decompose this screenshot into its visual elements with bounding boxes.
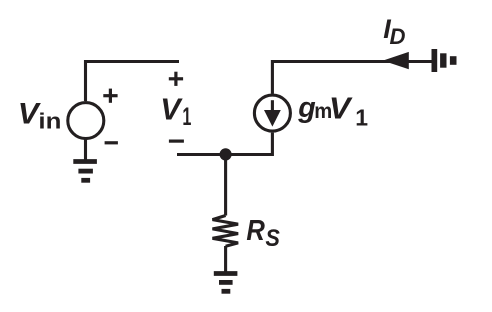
label V1 (160, 92, 191, 131)
ground (below RS) (214, 274, 238, 292)
svg-text:g: g (297, 92, 315, 124)
polarity + (Vin) (103, 89, 117, 103)
label RS (246, 215, 280, 252)
wire: current source top to drain terminal (272, 62, 431, 94)
dependent current source gmV1 (254, 95, 290, 131)
polarity - (V1) (169, 140, 184, 143)
svg-text:D: D (390, 24, 406, 49)
ground (below Vin) (73, 162, 97, 181)
polarity - (Vin) (105, 141, 118, 144)
wire: resistor to ground (224, 246, 227, 274)
label ID (383, 14, 405, 49)
wire: gate lead from Vin top to V1 + terminal (86, 62, 180, 102)
wire: Vin bottom to ground (84, 140, 87, 162)
wire: source node horizontal (V1 - terminal to current source) (177, 133, 272, 155)
node: source junction dot (220, 148, 232, 160)
resistor RS (213, 216, 239, 247)
svg-text:V: V (160, 92, 183, 126)
svg-text:S: S (265, 225, 280, 252)
voltage source Vin (68, 103, 104, 139)
current direction arrow ID (383, 52, 409, 69)
label Vin (18, 97, 62, 133)
svg-text:in: in (38, 109, 61, 134)
drain terminal (broken connection bars) (432, 49, 457, 72)
svg-text:1: 1 (182, 103, 191, 131)
svg-text:1: 1 (355, 104, 368, 130)
wire: node down to resistor (224, 155, 227, 216)
svg-text:V: V (329, 90, 353, 125)
svg-text:R: R (246, 215, 265, 247)
polarity + (V1) (169, 72, 183, 86)
label gmV1 (297, 90, 368, 130)
